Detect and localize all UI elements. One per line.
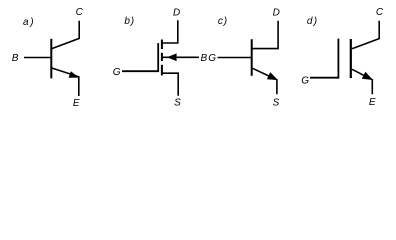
svg-text:d): d) bbox=[307, 16, 319, 27]
MOSFET Q2 channel top segment bbox=[161, 40, 163, 50]
svg-text:D: D bbox=[173, 7, 180, 18]
MOSFET Q2 channel middle segment bbox=[161, 53, 163, 61]
IGBT Q4 emitter wire bbox=[352, 69, 372, 94]
transistor Q1 emitter wire bbox=[52, 68, 79, 96]
transistor Q1 collector wire bbox=[52, 21, 79, 49]
IGBT Q4 collector wire bbox=[352, 21, 379, 49]
svg-text:G: G bbox=[208, 53, 216, 64]
IGBT Q4 body bar bbox=[350, 39, 352, 78]
svg-text:G: G bbox=[113, 67, 121, 78]
MOSFET Q2 bulk arrowhead bbox=[167, 53, 177, 61]
MOSFET Q2 drain wire bbox=[162, 20, 178, 43]
MOSFET Q3 source arrowhead bbox=[267, 72, 278, 80]
svg-text:a): a) bbox=[23, 17, 36, 28]
svg-text:B: B bbox=[12, 53, 19, 64]
MOSFET Q2 channel bottom segment bbox=[161, 65, 163, 76]
svg-text:S: S bbox=[174, 97, 181, 108]
svg-text:D: D bbox=[273, 7, 280, 18]
MOSFET Q3 body bar bbox=[251, 39, 253, 76]
IGBT Q4 gate bar and gate wire bbox=[310, 39, 338, 78]
MOSFET Q3 source wire bbox=[252, 68, 277, 94]
transistor Q1 base wire bbox=[24, 57, 51, 59]
svg-text:b): b) bbox=[124, 16, 135, 27]
transistor Q1 base bar bbox=[50, 39, 52, 79]
svg-text:E: E bbox=[369, 97, 376, 108]
svg-text:c): c) bbox=[218, 16, 228, 27]
svg-text:C: C bbox=[376, 7, 384, 18]
svg-text:G: G bbox=[301, 75, 309, 86]
MOSFET Q3 gate wire bbox=[218, 57, 252, 59]
MOSFET Q2 source wire bbox=[162, 73, 178, 96]
MOSFET Q2 gate bar and gate wire bbox=[122, 43, 158, 71]
svg-text:E: E bbox=[73, 98, 80, 109]
svg-text:C: C bbox=[76, 7, 84, 18]
svg-text:B: B bbox=[200, 53, 207, 64]
svg-text:S: S bbox=[273, 97, 280, 108]
IGBT Q4 emitter arrowhead bbox=[362, 72, 373, 80]
MOSFET Q3 drain wire bbox=[252, 21, 278, 49]
MOSFET Q2 bulk wire bbox=[163, 56, 200, 58]
transistor Q1 emitter arrowhead bbox=[69, 71, 80, 78]
